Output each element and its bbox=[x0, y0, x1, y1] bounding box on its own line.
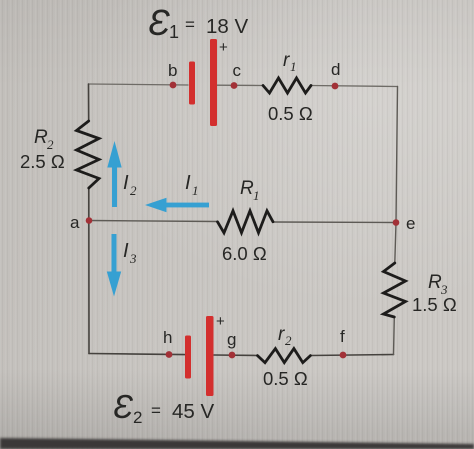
svg-text:1.5 Ω: 1.5 Ω bbox=[412, 294, 457, 315]
svg-text:=: = bbox=[151, 401, 161, 420]
svg-text:f: f bbox=[340, 327, 345, 346]
svg-text:r: r bbox=[283, 50, 290, 71]
svg-text:r: r bbox=[278, 324, 285, 345]
svg-text:R: R bbox=[428, 272, 442, 293]
svg-text:I: I bbox=[123, 240, 129, 262]
svg-text:45 V: 45 V bbox=[172, 400, 214, 423]
svg-text:b: b bbox=[168, 61, 177, 80]
svg-text:2: 2 bbox=[47, 137, 54, 152]
svg-text:h: h bbox=[163, 328, 172, 347]
svg-text:R: R bbox=[34, 127, 48, 148]
svg-text:a: a bbox=[70, 213, 80, 232]
svg-text:d: d bbox=[331, 60, 340, 79]
svg-text:1: 1 bbox=[253, 188, 260, 203]
svg-text:3: 3 bbox=[129, 251, 137, 266]
svg-text:2: 2 bbox=[133, 408, 142, 427]
svg-text:1: 1 bbox=[169, 22, 179, 42]
svg-text:18 V: 18 V bbox=[206, 15, 248, 38]
svg-text:=: = bbox=[185, 15, 195, 34]
svg-text:0.5 Ω: 0.5 Ω bbox=[268, 103, 313, 124]
svg-text:I: I bbox=[123, 172, 129, 194]
svg-text:1: 1 bbox=[192, 183, 199, 198]
svg-text:2.5 Ω: 2.5 Ω bbox=[20, 151, 65, 172]
svg-text:6.0 Ω: 6.0 Ω bbox=[222, 243, 267, 264]
svg-text:1: 1 bbox=[290, 59, 297, 74]
svg-text:g: g bbox=[227, 330, 236, 349]
svg-text:c: c bbox=[233, 61, 242, 80]
svg-text:R: R bbox=[240, 178, 254, 199]
svg-text:I: I bbox=[185, 172, 191, 194]
svg-text:2: 2 bbox=[285, 333, 292, 348]
svg-text:Ɛ: Ɛ bbox=[148, 2, 170, 43]
svg-text:e: e bbox=[406, 214, 415, 233]
svg-text:+: + bbox=[216, 313, 225, 330]
svg-text:+: + bbox=[219, 39, 228, 56]
svg-text:Ɛ: Ɛ bbox=[113, 388, 134, 425]
svg-text:2: 2 bbox=[130, 183, 137, 198]
svg-text:0.5 Ω: 0.5 Ω bbox=[263, 368, 308, 389]
